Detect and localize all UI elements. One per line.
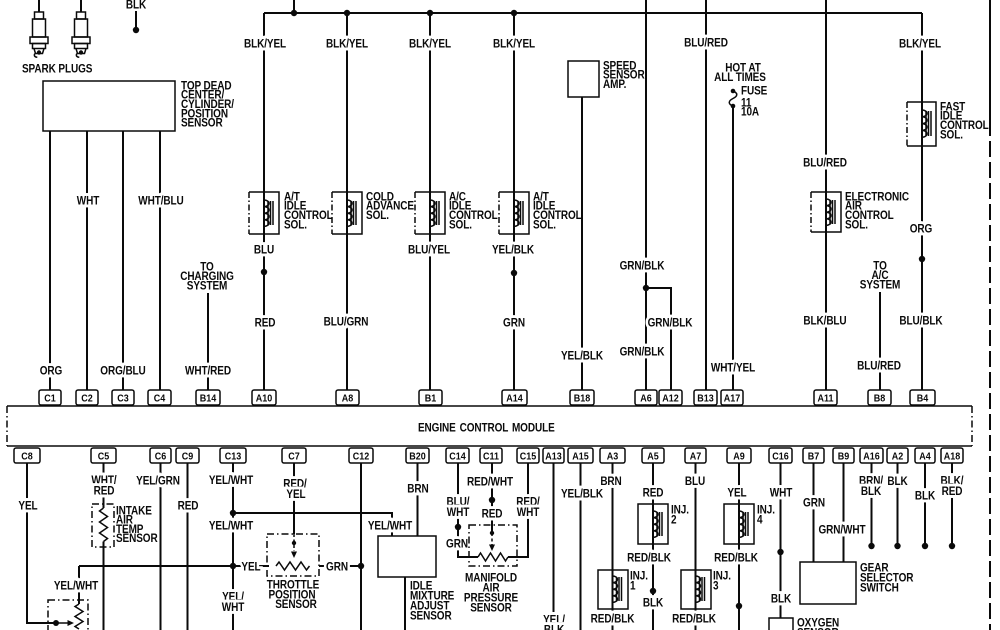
svg-text:GRN/BLK: GRN/BLK xyxy=(620,346,665,359)
svg-text:C8: C8 xyxy=(21,451,33,463)
svg-text:BLK: BLK xyxy=(861,485,882,498)
pin C15 xyxy=(517,448,539,463)
pin A11 xyxy=(814,390,837,405)
pin A17 xyxy=(721,390,743,405)
svg-text:GRN: GRN xyxy=(503,317,525,330)
wire A3 BRN xyxy=(591,463,635,630)
pin C12 xyxy=(349,448,373,463)
svg-text:BRN: BRN xyxy=(600,475,622,488)
junction bus 4 xyxy=(511,10,517,16)
splice YEL/BLK-GRN A14 xyxy=(511,270,517,276)
svg-text:BLK/BLU: BLK/BLU xyxy=(803,315,846,328)
svg-text:BLU/GRN: BLU/GRN xyxy=(324,316,369,329)
svg-text:C11: C11 xyxy=(483,451,500,463)
border right edge xyxy=(989,0,991,630)
svg-text:BLU: BLU xyxy=(254,244,275,257)
wire B7 GRN xyxy=(803,463,825,562)
injector INJ4 xyxy=(724,504,775,544)
pin A8 xyxy=(336,390,359,405)
cold advance sol xyxy=(332,191,414,234)
svg-text:RED/BLK: RED/BLK xyxy=(591,613,635,626)
junction C13 upper xyxy=(230,510,236,516)
svg-text:YEL/WHT: YEL/WHT xyxy=(54,580,99,593)
svg-text:BLK: BLK xyxy=(544,624,565,630)
svg-text:B4: B4 xyxy=(917,393,929,405)
oxygen sensor (cut) xyxy=(769,617,839,630)
svg-text:GRN: GRN xyxy=(803,497,825,510)
svg-text:SOL.: SOL. xyxy=(284,219,307,232)
svg-text:ENGINE CONTROL MODULE: ENGINE CONTROL MODULE xyxy=(418,422,555,435)
svg-text:WHT: WHT xyxy=(517,506,540,519)
wire A4 BLK xyxy=(915,463,936,549)
svg-text:C9: C9 xyxy=(182,451,194,463)
svg-text:YEL: YEL xyxy=(727,487,747,500)
wire top bus BLK/YEL xyxy=(264,12,922,14)
fuse 11 10A xyxy=(714,62,767,119)
pin C5 xyxy=(91,448,116,463)
svg-text:SOL.: SOL. xyxy=(845,219,868,232)
junction bus 2 xyxy=(344,10,350,16)
splice C14 xyxy=(455,524,461,530)
pin C9 xyxy=(176,448,199,463)
svg-text:SWITCH: SWITCH xyxy=(860,582,899,595)
wire A5 RED xyxy=(627,463,671,630)
svg-text:A10: A10 xyxy=(256,393,273,405)
svg-text:B8: B8 xyxy=(874,393,886,405)
pin C16 xyxy=(769,448,792,463)
pin A16 xyxy=(860,448,883,463)
junction C13 lower xyxy=(230,563,236,569)
svg-text:RED/WHT: RED/WHT xyxy=(467,476,513,489)
pin A10 xyxy=(252,390,276,405)
wire A2 BLK xyxy=(887,463,908,549)
wire bus to B4 BLK/YEL xyxy=(899,13,943,390)
splice ORG-BLU/BLK B4 xyxy=(919,256,925,262)
pin A14 xyxy=(502,390,527,405)
svg-text:SOL.: SOL. xyxy=(449,219,472,232)
pin C14 xyxy=(446,448,469,463)
pin C7 xyxy=(282,448,306,463)
wire bus to A10 xyxy=(244,13,287,390)
svg-text:BLK/YEL: BLK/YEL xyxy=(493,38,536,51)
wire B9 GRN/WHT xyxy=(818,463,866,562)
wire C16 WHT BLK xyxy=(770,463,793,618)
splice C16 xyxy=(777,549,783,555)
svg-text:BLU/RED: BLU/RED xyxy=(803,157,847,170)
manifold air pressure sensor xyxy=(464,525,518,615)
junction GRN C12 xyxy=(358,563,364,569)
svg-text:GRN/WHT: GRN/WHT xyxy=(818,524,866,537)
svg-text:A17: A17 xyxy=(724,393,741,405)
svg-text:BRN: BRN xyxy=(407,483,429,496)
wire bus to A8 xyxy=(324,13,369,390)
svg-text:A8: A8 xyxy=(342,393,354,405)
svg-text:C4: C4 xyxy=(154,393,166,405)
svg-text:C5: C5 xyxy=(98,451,110,463)
wire C6 YEL/GRN xyxy=(136,463,180,630)
svg-text:C3: C3 xyxy=(117,393,129,405)
svg-text:SYSTEM: SYSTEM xyxy=(860,279,901,292)
svg-text:ORG/BLU: ORG/BLU xyxy=(100,365,146,378)
svg-text:SYSTEM: SYSTEM xyxy=(187,280,228,293)
wire bus feed xyxy=(293,0,295,13)
svg-text:C7: C7 xyxy=(288,451,299,463)
svg-text:BLK/YEL: BLK/YEL xyxy=(244,38,287,51)
svg-text:GRN: GRN xyxy=(446,538,468,551)
svg-text:SENSOR: SENSOR xyxy=(181,117,223,130)
pin C4 xyxy=(148,390,171,405)
svg-text:BLK/YEL: BLK/YEL xyxy=(899,38,942,51)
wire to B13 BLU/RED xyxy=(684,0,728,390)
top dead center/cylinder/position sensor xyxy=(43,80,234,131)
svg-text:SENSOR: SENSOR xyxy=(275,598,317,611)
a/t idle control sol 1 xyxy=(249,191,333,234)
svg-text:A5: A5 xyxy=(647,451,659,463)
junction bus 1 xyxy=(291,10,297,16)
svg-text:A15: A15 xyxy=(572,451,589,463)
svg-text:RED/BLK: RED/BLK xyxy=(672,613,716,626)
idle mixture adjust sensor xyxy=(378,536,454,630)
pin A13 xyxy=(543,448,564,463)
svg-text:RED/BLK: RED/BLK xyxy=(627,552,671,565)
wire TDC to C2 WHT xyxy=(77,131,100,390)
svg-text:SENSOR: SENSOR xyxy=(116,532,158,545)
pin A4 xyxy=(915,448,935,463)
svg-text:B14: B14 xyxy=(200,393,217,405)
pin B20 xyxy=(406,448,429,463)
svg-text:1: 1 xyxy=(630,580,636,593)
svg-text:SPARK PLUGS: SPARK PLUGS xyxy=(22,63,92,76)
egr sensor (cut) xyxy=(48,566,99,630)
wire A18 BLK/RED xyxy=(941,463,964,549)
injector INJ2 xyxy=(638,504,689,544)
svg-text:B7: B7 xyxy=(808,451,819,463)
svg-text:RED: RED xyxy=(178,500,199,513)
svg-text:B18: B18 xyxy=(574,393,591,405)
svg-text:WHT: WHT xyxy=(222,601,245,614)
svg-text:YEL/WHT: YEL/WHT xyxy=(209,520,254,533)
svg-text:SOL.: SOL. xyxy=(940,129,963,142)
injector INJ1 xyxy=(598,570,648,609)
wire bus to B1 xyxy=(408,13,452,390)
svg-text:B13: B13 xyxy=(697,393,714,405)
wire B20 BRN xyxy=(407,463,429,536)
svg-text:A18: A18 xyxy=(944,451,961,463)
svg-text:C16: C16 xyxy=(772,451,789,463)
spark plug 2 xyxy=(72,0,90,57)
svg-text:WHT/BLU: WHT/BLU xyxy=(138,195,184,208)
svg-text:BLK: BLK xyxy=(771,593,792,606)
svg-text:YEL/BLK: YEL/BLK xyxy=(492,244,534,257)
svg-text:RED: RED xyxy=(482,508,503,521)
wire C13 to idle mixture YEL/WHT xyxy=(233,513,413,536)
wire C9 RED xyxy=(178,463,199,630)
wire egr to C13 node xyxy=(79,565,233,567)
wire A9 YEL xyxy=(714,463,758,630)
svg-text:BLU/BLK: BLU/BLK xyxy=(899,315,942,328)
pin C2 xyxy=(76,390,98,405)
pin C13 xyxy=(220,448,246,463)
pin A12 xyxy=(659,390,682,405)
junction A9 xyxy=(736,603,742,609)
svg-text:YEL/WHT: YEL/WHT xyxy=(368,520,413,533)
svg-text:BLU: BLU xyxy=(685,475,706,488)
svg-text:BLU/YEL: BLU/YEL xyxy=(408,244,451,257)
svg-text:A13: A13 xyxy=(545,451,562,463)
svg-text:A9: A9 xyxy=(733,451,745,463)
svg-text:A16: A16 xyxy=(863,451,880,463)
wire to a/c system B8 BLU/RED xyxy=(857,260,901,390)
svg-text:YEL: YEL xyxy=(286,488,306,501)
svg-text:C14: C14 xyxy=(449,451,466,463)
pin A5 xyxy=(642,448,664,463)
svg-text:BLU/RED: BLU/RED xyxy=(684,37,728,50)
node BLK xyxy=(126,0,147,33)
pin C8 xyxy=(14,448,40,463)
svg-text:C6: C6 xyxy=(155,451,167,463)
pin A18 xyxy=(941,448,963,463)
wire to charging system B14 WHT/RED xyxy=(180,261,234,390)
wire GRN to C12 xyxy=(319,561,361,574)
electronic air control sol xyxy=(811,191,909,232)
intake air temp sensor xyxy=(91,463,157,630)
injector INJ3 xyxy=(681,570,731,609)
svg-text:ORG: ORG xyxy=(910,223,932,236)
wire TDC to C4 WHT/BLU xyxy=(138,131,184,390)
wire branch to A12 GRN/BLK xyxy=(646,288,693,390)
throttle position sensor xyxy=(267,463,319,611)
wire A7 BLU xyxy=(672,463,716,630)
wire C14 BLU/WHT GRN xyxy=(446,463,478,557)
svg-text:BLK/YEL: BLK/YEL xyxy=(409,38,452,51)
svg-text:2: 2 xyxy=(671,514,677,527)
svg-text:SENSOR: SENSOR xyxy=(470,602,512,615)
wire to A11 BLU/RED BLK/BLU xyxy=(803,0,847,390)
wire A13 YEL/BLK xyxy=(543,463,565,630)
svg-text:GRN/BLK: GRN/BLK xyxy=(620,260,665,273)
svg-text:RED: RED xyxy=(643,487,664,500)
splice BLU/RED A10 xyxy=(261,269,267,275)
svg-text:A3: A3 xyxy=(607,451,619,463)
svg-text:C2: C2 xyxy=(81,393,92,405)
svg-text:B9: B9 xyxy=(838,451,850,463)
svg-text:GRN/BLK: GRN/BLK xyxy=(648,317,693,330)
svg-text:C15: C15 xyxy=(520,451,537,463)
pin B8 xyxy=(868,390,891,405)
svg-text:A11: A11 xyxy=(817,393,834,405)
fast idle control sol xyxy=(907,101,989,146)
wire fuse to A17 WHT/YEL xyxy=(711,106,756,390)
svg-text:WHT: WHT xyxy=(770,487,793,500)
svg-text:RED: RED xyxy=(255,317,276,330)
pin B9 xyxy=(833,448,854,463)
wire TDC to C3 ORG/BLU xyxy=(100,131,146,390)
pin C3 xyxy=(112,390,134,405)
wire C11 RED/WHT RED xyxy=(467,463,513,533)
pin B4 xyxy=(910,390,935,405)
spark plug 1 xyxy=(30,0,48,57)
svg-text:BLK/YEL: BLK/YEL xyxy=(326,38,369,51)
pin A7 xyxy=(685,448,706,463)
wire node YEL xyxy=(233,561,269,574)
svg-text:BLK: BLK xyxy=(126,0,147,12)
svg-text:YEL/GRN: YEL/GRN xyxy=(136,475,180,488)
svg-text:YEL: YEL xyxy=(241,561,261,574)
speed sensor amp U1 xyxy=(568,60,645,97)
wire A16 BRN/BLK xyxy=(859,463,883,549)
svg-text:BLK: BLK xyxy=(915,490,936,503)
engine control module xyxy=(7,406,972,446)
svg-text:YEL/WHT: YEL/WHT xyxy=(209,474,254,487)
pin A2 xyxy=(887,448,908,463)
svg-text:A7: A7 xyxy=(690,451,701,463)
svg-text:C1: C1 xyxy=(44,393,56,405)
wire A15 YEL/BLK xyxy=(561,463,603,630)
svg-text:SENSOR: SENSOR xyxy=(410,610,452,623)
svg-text:BLU/RED: BLU/RED xyxy=(857,360,901,373)
wire speed amp to B18 YEL/BLK xyxy=(561,97,603,390)
pin B1 xyxy=(419,390,442,405)
junction bus 3 xyxy=(427,10,433,16)
svg-text:4: 4 xyxy=(757,514,763,527)
svg-text:RED: RED xyxy=(942,485,963,498)
svg-text:WHT: WHT xyxy=(77,195,100,208)
wire TDC to C1 ORG xyxy=(40,131,62,390)
svg-text:B1: B1 xyxy=(425,393,437,405)
svg-text:RED/BLK: RED/BLK xyxy=(714,552,758,565)
splice C11 xyxy=(489,497,495,503)
svg-text:A6: A6 xyxy=(640,393,652,405)
wire C8 YEL xyxy=(18,463,56,623)
svg-text:AMP.: AMP. xyxy=(603,78,626,91)
svg-text:WHT/RED: WHT/RED xyxy=(185,365,231,378)
gear selector switch xyxy=(800,562,914,604)
svg-text:3: 3 xyxy=(713,580,719,593)
svg-text:RED: RED xyxy=(94,485,115,498)
a/c idle control sol xyxy=(415,191,498,234)
pin A9 xyxy=(727,448,751,463)
svg-text:WHT: WHT xyxy=(447,506,470,519)
pin B13 xyxy=(694,390,717,405)
pin C11 xyxy=(480,448,502,463)
svg-text:BLK: BLK xyxy=(887,475,908,488)
pin B18 xyxy=(570,390,594,405)
pin A3 xyxy=(600,448,625,463)
wire to A6 GRN/BLK xyxy=(620,0,665,390)
junction GRN/BLK branch xyxy=(643,285,649,291)
pin A6 xyxy=(635,390,657,405)
svg-text:ALL TIMES: ALL TIMES xyxy=(714,71,766,84)
pin C6 xyxy=(150,448,171,463)
svg-text:C12: C12 xyxy=(353,451,370,463)
svg-text:A2: A2 xyxy=(892,451,903,463)
pin B14 xyxy=(196,390,220,405)
svg-text:B20: B20 xyxy=(409,451,426,463)
svg-text:YEL/BLK: YEL/BLK xyxy=(561,350,603,363)
svg-text:WHT/YEL: WHT/YEL xyxy=(711,362,756,375)
pin B7 xyxy=(803,448,824,463)
wire C12 xyxy=(360,463,362,630)
svg-text:10A: 10A xyxy=(741,106,759,119)
svg-text:SOL.: SOL. xyxy=(533,219,556,232)
svg-text:GRN: GRN xyxy=(326,561,348,574)
svg-text:SOL.: SOL. xyxy=(366,209,389,222)
pin A15 xyxy=(568,448,593,463)
wire C13 YEL/WHT xyxy=(209,463,254,630)
wire C15 RED/WHT xyxy=(508,463,540,557)
svg-text:A14: A14 xyxy=(506,393,523,405)
svg-text:BLK: BLK xyxy=(643,597,664,610)
svg-text:C13: C13 xyxy=(225,451,242,463)
pin C1 xyxy=(39,390,61,405)
junction A5 BLK xyxy=(650,588,656,594)
a/t idle control sol 2 xyxy=(499,191,582,234)
svg-text:FUSE: FUSE xyxy=(741,85,767,98)
wire bus to A14 xyxy=(492,13,536,390)
svg-text:A12: A12 xyxy=(662,393,679,405)
svg-text:YEL: YEL xyxy=(18,500,38,513)
svg-text:YEL/BLK: YEL/BLK xyxy=(561,488,603,501)
svg-text:ORG: ORG xyxy=(40,365,62,378)
svg-text:A4: A4 xyxy=(919,451,931,463)
